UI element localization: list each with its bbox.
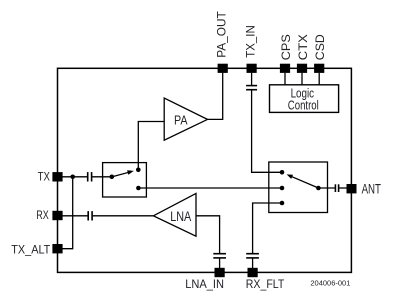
svg-text:CSD: CSD bbox=[313, 34, 327, 60]
pin TX bbox=[52, 172, 62, 181]
TX switch throw node lower bbox=[136, 186, 141, 191]
node TX junction bbox=[70, 175, 75, 180]
wire RX pin to capacitor bbox=[62, 215, 88, 217]
svg-text:CPS: CPS bbox=[279, 34, 293, 60]
capacitor RX_FLT shunt bbox=[246, 254, 259, 258]
wire PA output to PA_OUT pin bbox=[208, 73, 223, 120]
wire TX switch upper throw to PA input bbox=[138, 122, 164, 170]
wire antenna switch pole to capacitor bbox=[318, 187, 334, 189]
svg-text:RX: RX bbox=[36, 208, 49, 222]
wire LNA input to LNA_IN capacitor bbox=[196, 216, 220, 253]
capacitor RX series bbox=[88, 211, 92, 220]
antenna switch pole node bbox=[316, 186, 321, 191]
antenna switch arm arrow bbox=[287, 174, 319, 188]
wire antenna switch lower throw to RX_FLT bbox=[253, 203, 282, 253]
svg-text:LNA: LNA bbox=[170, 208, 192, 224]
wire TX_ALT to TX bus bbox=[62, 177, 73, 249]
wire CTX to logic control bbox=[301, 73, 303, 85]
wire TX pin to capacitor bbox=[62, 176, 87, 178]
pin CTX bbox=[297, 64, 307, 73]
svg-text:ANT: ANT bbox=[362, 182, 381, 197]
svg-text:TX: TX bbox=[38, 170, 50, 184]
wire CSD to logic control bbox=[318, 73, 320, 85]
wire TX_IN capacitor to antenna switch top throw bbox=[252, 90, 282, 172]
pin LNA_IN bbox=[215, 268, 225, 277]
wire TX_IN pin down to coupling capacitor bbox=[251, 73, 253, 85]
capacitor TX series bbox=[88, 172, 92, 181]
op-amp LNA bbox=[153, 193, 196, 236]
capacitor LNA_IN shunt bbox=[213, 254, 226, 258]
op-amp PA bbox=[164, 98, 207, 140]
wire CPS to logic control bbox=[284, 73, 286, 85]
wire LNA_IN capacitor to pin bbox=[219, 259, 221, 273]
svg-text:PA_OUT: PA_OUT bbox=[214, 11, 228, 58]
pin TX_ALT bbox=[52, 244, 62, 253]
Logic Control block bbox=[270, 85, 339, 113]
pin CSD bbox=[314, 64, 324, 73]
svg-text:CTX: CTX bbox=[296, 34, 310, 60]
TX switch pole node bbox=[110, 175, 115, 180]
pin RX_FLT bbox=[248, 268, 258, 277]
pin PA_OUT bbox=[218, 64, 228, 73]
switch box TX (SPDT) bbox=[103, 163, 147, 197]
svg-text:RX_FLT: RX_FLT bbox=[246, 277, 285, 291]
antenna switch throw node bottom bbox=[280, 201, 285, 206]
antenna switch throw node middle bbox=[280, 186, 285, 191]
pin ANT bbox=[347, 184, 357, 193]
svg-text:TX_IN: TX_IN bbox=[243, 25, 257, 58]
wire TX capacitor to TX switch pole bbox=[92, 176, 112, 178]
capacitor ANT series bbox=[335, 184, 338, 192]
wire ANT capacitor to pin bbox=[339, 187, 347, 189]
switch box antenna (SP3T) bbox=[269, 162, 328, 213]
device outline box bbox=[58, 68, 352, 272]
wire RX_FLT capacitor to pin bbox=[252, 259, 254, 273]
wire RX capacitor to LNA output bbox=[93, 215, 154, 217]
capacitor TX_IN series bbox=[246, 86, 257, 90]
svg-text:LNA_IN: LNA_IN bbox=[185, 277, 224, 291]
svg-text:TX_ALT: TX_ALT bbox=[11, 242, 51, 256]
svg-text:PA: PA bbox=[174, 112, 188, 127]
antenna switch throw node top bbox=[280, 170, 285, 175]
svg-text:204006-001: 204006-001 bbox=[310, 278, 350, 287]
pin CPS bbox=[280, 64, 290, 73]
TX switch arm arrow bbox=[112, 170, 134, 177]
pin RX bbox=[52, 211, 62, 220]
wire TX switch lower throw to antenna switch middle throw bbox=[138, 187, 282, 189]
TX switch throw node upper bbox=[136, 168, 141, 173]
pin TX_IN bbox=[247, 64, 257, 73]
svg-text:Control: Control bbox=[288, 98, 319, 113]
